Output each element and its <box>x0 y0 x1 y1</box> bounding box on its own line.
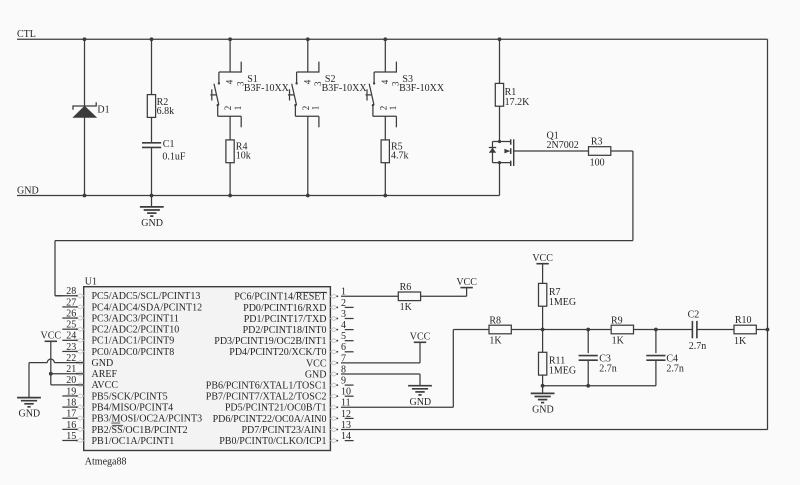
svg-text:D1: D1 <box>97 105 109 116</box>
node U1 pin 28 PC5/ADC5/SCL/PCINT13 <box>66 286 200 302</box>
svg-text:PC4/ADC4/SDA/PCINT12: PC4/ADC4/SDA/PCINT12 <box>92 302 203 313</box>
wire C4 top <box>655 330 657 354</box>
wire R4 to GND net <box>229 163 231 196</box>
svg-text:PD7/PCINT23/AIN1: PD7/PCINT23/AIN1 <box>241 425 326 436</box>
node CTL net label <box>17 29 36 40</box>
svg-text:100: 100 <box>590 157 605 168</box>
svg-text:PD5/PCINT21/OC0B/T1: PD5/PCINT21/OC0B/T1 <box>225 403 327 414</box>
transistor Q1 2N7002 N-MOSFET <box>489 131 579 196</box>
svg-text:PC2/ADC2/PCINT10: PC2/ADC2/PCINT10 <box>92 325 180 336</box>
switch S2 B3F-10XX with pins 4,3,2,1 <box>288 62 367 128</box>
capacitor C2 <box>688 310 707 352</box>
svg-text:B3F-10XX: B3F-10XX <box>322 83 368 94</box>
junction R7/R8/R11 <box>541 328 545 332</box>
resistor R9 <box>611 315 634 346</box>
svg-text:2: 2 <box>341 298 346 309</box>
node U1 pin 16 PB2/SS/OC1B/PCINT2 <box>62 420 187 436</box>
svg-text:PB0/PCINT0/CLKO/ICP1: PB0/PCINT0/CLKO/ICP1 <box>219 436 326 447</box>
node U1 pin 12 PD6/PCINT22/OC0A/AIN0 <box>213 409 354 425</box>
svg-text:15: 15 <box>66 431 76 442</box>
svg-text:2.7n: 2.7n <box>599 364 617 375</box>
node U1 pin 10 PB7/PCINT7/XTAL2/TOSC2 <box>206 387 354 403</box>
node U1 pin 1 PC6/PCINT14/RESET <box>234 287 346 303</box>
svg-text:2.7n: 2.7n <box>689 341 707 352</box>
junction GND/R4 <box>228 194 232 198</box>
capacitor C1 <box>142 139 186 162</box>
node U1 pin 7 VCC <box>306 353 346 369</box>
resistor R10 <box>734 315 756 347</box>
svg-text:23: 23 <box>66 342 76 353</box>
svg-text:AREF: AREF <box>92 369 118 380</box>
junction GND/S2 <box>306 194 310 198</box>
wire GND horizontal net <box>17 195 500 197</box>
resistor R7 <box>539 283 577 308</box>
svg-text:19: 19 <box>66 386 76 397</box>
wire AREF to VCC column <box>51 373 84 375</box>
wire CTL right-side vertical down to R10/PD7 column <box>767 39 769 429</box>
junction R9/C2/C4 <box>654 328 658 332</box>
wire U1 pin7 VCC up to VCC symbol <box>341 342 420 363</box>
svg-text:25: 25 <box>66 320 76 331</box>
diode D1 (zener) <box>73 102 110 117</box>
svg-text:10: 10 <box>341 387 351 398</box>
svg-text:1K: 1K <box>612 335 625 346</box>
ground symbol at U1 pin 8 <box>408 386 432 408</box>
node U1 pin 9 PB6/PCINT6/XTAL1/TOSC1 <box>206 376 354 392</box>
resistor R6 <box>398 282 420 313</box>
svg-text:1MEG: 1MEG <box>549 366 576 377</box>
junction VCC/AREF <box>49 372 53 376</box>
node U1 pin 11 PD5/PCINT21/OC0B/T1 <box>225 398 351 414</box>
junction CTL/S3 <box>383 37 387 41</box>
svg-text:PB4/MISO/PCINT4: PB4/MISO/PCINT4 <box>92 403 174 414</box>
node U1 pin 4 PD2/PCINT18/INT0 <box>243 320 354 336</box>
junction bottom rail at R11 <box>541 384 545 388</box>
wire VCC to R7 <box>542 264 544 284</box>
capacitor C4 <box>646 354 684 375</box>
svg-text:6.8k: 6.8k <box>157 106 175 117</box>
wire U1 pin13 AIN1 to right-side vertical <box>341 429 768 431</box>
svg-text:B3F-10XX: B3F-10XX <box>244 83 290 94</box>
junction CTL/R2 <box>150 37 154 41</box>
svg-text:PD4/PCINT20/XCK/T0: PD4/PCINT20/XCK/T0 <box>229 347 326 358</box>
svg-text:1K: 1K <box>400 302 413 313</box>
wire CTL to D1 cathode <box>84 39 86 106</box>
node U1 pin 6 PD4/PCINT20/XCK/T0 <box>229 342 353 358</box>
svg-text:R3: R3 <box>591 137 603 148</box>
svg-text:1MEG: 1MEG <box>549 297 576 308</box>
svg-text:6: 6 <box>341 342 346 353</box>
svg-text:18: 18 <box>66 398 76 409</box>
svg-text:Atmega88: Atmega88 <box>85 456 127 467</box>
svg-text:16: 16 <box>66 420 76 431</box>
svg-text:PD1/PCINT17/TXD: PD1/PCINT17/TXD <box>244 314 327 325</box>
svg-text:2.7n: 2.7n <box>666 364 684 375</box>
wire junction to R11 <box>542 330 544 353</box>
svg-text:C1: C1 <box>163 139 175 150</box>
wire U1 pin11 up to R8 <box>341 330 489 408</box>
svg-text:R10: R10 <box>735 315 752 326</box>
node GND net label <box>17 185 39 196</box>
svg-text:PD3/PCINT19/OC2B/INT1: PD3/PCINT19/OC2B/INT1 <box>214 336 326 347</box>
svg-text:1K: 1K <box>734 336 747 347</box>
svg-text:PC3/ADC3/PCINT11: PC3/ADC3/PCINT11 <box>92 313 179 324</box>
svg-text:AVCC: AVCC <box>92 380 119 391</box>
wire R5 to GND net <box>384 163 386 196</box>
wire Q1 gate to R3 <box>514 150 589 152</box>
svg-text:PB7/PCINT7/XTAL2/TOSC2: PB7/PCINT7/XTAL2/TOSC2 <box>206 392 327 403</box>
svg-text:GND: GND <box>17 185 39 196</box>
wire R3 to PC5 net (right and down) <box>55 151 633 296</box>
node U1 pin 14 PB0/PCINT0/CLKO/ICP1 <box>219 431 353 447</box>
switch S3 B3F-10XX with pins 4,3,2,1 <box>366 62 445 128</box>
wire bottom rail R11/C3/C4 <box>543 385 656 387</box>
wire GND net to ground symbol stub <box>151 196 153 207</box>
wire S2 to GND net <box>307 116 309 195</box>
power VCC symbol above R7 <box>532 253 553 264</box>
node U1 pin 15 PB1/OC1A/PCINT1 <box>62 431 174 447</box>
node U1 pin 8 GND <box>305 364 346 380</box>
node U1 pin 20 AVCC <box>66 375 118 391</box>
svg-text:PD2/PCINT18/INT0: PD2/PCINT18/INT0 <box>243 325 327 336</box>
node U1 pin 24 PC1/ADC1/PCINT9 <box>62 331 174 347</box>
wire VCC to AREF/AVCC <box>51 341 84 385</box>
resistor R1 <box>495 83 530 107</box>
node U1 pin 2 PD0/PCINT16/RXD <box>243 298 353 314</box>
junction GND/R5 <box>383 194 387 198</box>
wire R9 to C2 <box>634 329 693 331</box>
power VCC symbol left of U1 <box>41 331 62 342</box>
junction main row / C3 <box>586 328 590 332</box>
svg-text:10k: 10k <box>236 151 251 162</box>
svg-text:24: 24 <box>66 331 76 342</box>
svg-text:PB3/MOSI/OC2A/PCINT3: PB3/MOSI/OC2A/PCINT3 <box>92 414 203 425</box>
wire R6 to VCC <box>421 288 467 297</box>
wire S3 to R5 <box>384 116 386 140</box>
wire R2 to C1 <box>151 117 153 142</box>
node U1 pin 18 PB4/MISO/PCINT4 <box>62 398 173 414</box>
resistor R4 <box>226 140 251 163</box>
svg-text:U1: U1 <box>85 277 97 288</box>
node U1 pin 3 PD1/PCINT17/TXD <box>244 309 354 325</box>
svg-text:R8: R8 <box>489 315 501 326</box>
node U1 pin 26 PC3/ADC3/PCINT11 <box>62 308 179 324</box>
svg-text:4: 4 <box>341 320 346 331</box>
svg-text:PD0/PCINT16/RXD: PD0/PCINT16/RXD <box>243 303 326 314</box>
svg-text:17: 17 <box>66 409 76 420</box>
svg-text:PB5/SCK/PCINT5: PB5/SCK/PCINT5 <box>92 391 168 402</box>
wire U1 pin8 GND down to ground <box>341 374 420 386</box>
node U1 pin 19 PB5/SCK/PCINT5 <box>62 386 167 402</box>
wire CTL to R2 <box>151 39 153 94</box>
svg-text:R9: R9 <box>611 315 623 326</box>
wire C1 to GND net <box>151 147 153 195</box>
svg-text:2N7002: 2N7002 <box>547 140 579 151</box>
wire CTL to switch S1 <box>229 39 231 72</box>
node U1 pin 23 PC0/ADC0/PCINT8 <box>62 342 174 358</box>
capacitor C3 <box>579 354 617 375</box>
svg-text:PC5/ADC5/SCL/PCINT13: PC5/ADC5/SCL/PCINT13 <box>92 291 201 302</box>
svg-text:PD6/PCINT22/OC0A/AIN0: PD6/PCINT22/OC0A/AIN0 <box>213 414 327 425</box>
wire C2 to R10 <box>697 329 734 331</box>
svg-text:17.2K: 17.2K <box>505 97 530 108</box>
resistor R5 <box>381 140 408 163</box>
svg-text:1K: 1K <box>489 335 502 346</box>
junction right vertical / R10 <box>766 328 770 332</box>
wire R10 to right vertical <box>756 329 767 331</box>
junction bottom rail / C3 <box>586 384 590 388</box>
svg-text:27: 27 <box>66 297 76 308</box>
svg-text:CTL: CTL <box>17 29 36 40</box>
node U1 pin 17 PB3/MOSI/OC2A/PCINT3 <box>62 409 202 425</box>
wire R8 to R7/R11 junction <box>511 329 542 331</box>
wire R11 to bottom rail <box>542 375 544 386</box>
svg-text:PC6/PCINT14/RESET: PC6/PCINT14/RESET <box>234 292 326 303</box>
svg-text:26: 26 <box>66 308 76 319</box>
node U1 pin 25 PC2/ADC2/PCINT10 <box>62 320 179 336</box>
junction GND/C1 <box>150 194 154 198</box>
wire C4 bottom to rail corner <box>655 360 657 386</box>
svg-text:3: 3 <box>341 309 346 320</box>
wire CTL horizontal net <box>17 38 768 40</box>
ground symbol below C1 <box>140 207 164 229</box>
wire U1 pin1 RESET to R6 <box>341 295 398 297</box>
junction CTL/D1 <box>83 37 87 41</box>
svg-text:GND: GND <box>92 358 114 369</box>
wire U1 pin22 GND to left ground (with hop over VCC wire) <box>29 359 84 398</box>
wire C3 bottom <box>587 360 589 386</box>
junction CTL/S1 <box>228 37 232 41</box>
node U1 pin 13 PD7/PCINT23/AIN1 <box>241 420 351 436</box>
svg-text:PB6/PCINT6/XTAL1/TOSC1: PB6/PCINT6/XTAL1/TOSC1 <box>206 381 327 392</box>
node U1 pin 22 GND <box>66 353 113 369</box>
wire S1 to R4 <box>229 116 231 140</box>
wire D1 anode to GND net <box>84 117 86 195</box>
switch S1 B3F-10XX with pins 4,3,2,1 <box>210 62 289 128</box>
op-amp U1 Atmega88 MCU body <box>84 277 331 468</box>
svg-text:R6: R6 <box>400 282 412 293</box>
svg-text:VCC: VCC <box>306 358 327 369</box>
resistor R8 <box>489 315 511 346</box>
svg-text:5: 5 <box>341 331 346 342</box>
wire U1 pin28 stub (joined to PC5 net) <box>55 295 77 297</box>
resistor R11 <box>539 352 577 376</box>
junction GND/D1 <box>83 194 87 198</box>
svg-text:9: 9 <box>341 376 346 387</box>
wire CTL to R1 <box>499 39 501 83</box>
power VCC symbol at R6 <box>456 277 477 288</box>
resistor R2 <box>147 95 174 118</box>
junction CTL/R1 <box>498 37 502 41</box>
svg-text:PB1/OC1A/PCINT1: PB1/OC1A/PCINT1 <box>92 436 175 447</box>
svg-text:4.7k: 4.7k <box>391 151 409 162</box>
resistor R3 <box>589 137 611 169</box>
wire C3 top <box>587 330 589 354</box>
wire CTL to switch S2 <box>307 39 309 72</box>
svg-text:C2: C2 <box>688 310 700 321</box>
ground symbol left of U1 <box>17 398 41 420</box>
wire CTL to switch S3 <box>384 39 386 72</box>
ground symbol below R11 <box>531 386 555 416</box>
svg-text:0.1uF: 0.1uF <box>162 151 186 162</box>
svg-text:14: 14 <box>341 431 351 442</box>
wire R1 to Q1 drain <box>499 106 501 141</box>
node U1 pin 21 AREF <box>66 364 117 380</box>
wire main row R8 junction to R9 <box>543 329 612 331</box>
svg-text:GND: GND <box>305 369 327 380</box>
junction CTL/S2 <box>306 37 310 41</box>
svg-text:PB2/SS/OC1B/PCINT2: PB2/SS/OC1B/PCINT2 <box>92 425 188 436</box>
wire R7 to junction <box>542 306 544 329</box>
power VCC symbol at U1 pin 7 <box>410 332 431 343</box>
svg-text:PC0/ADC0/PCINT8: PC0/ADC0/PCINT8 <box>92 347 175 358</box>
svg-text:PC1/ADC1/PCINT9: PC1/ADC1/PCINT9 <box>92 336 175 347</box>
svg-text:B3F-10XX: B3F-10XX <box>399 83 445 94</box>
node U1 pin 27 PC4/ADC4/SDA/PCINT12 <box>62 297 202 313</box>
node U1 pin 5 PD3/PCINT19/OC2B/INT1 <box>214 331 353 347</box>
svg-text:12: 12 <box>341 409 351 420</box>
